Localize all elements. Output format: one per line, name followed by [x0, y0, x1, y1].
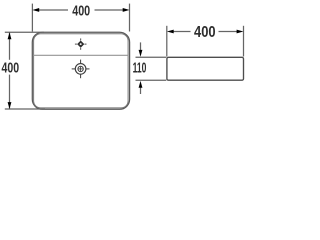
height dimension extension and dimension lines — [136, 42, 167, 94]
top width dimension left arrow — [32, 8, 39, 12]
svg-text:400: 400 — [194, 24, 216, 41]
plan view inner rim — [34, 34, 129, 108]
left depth dimension bottom arrow — [8, 102, 12, 109]
drain symbol — [72, 60, 90, 79]
plan view outer rim — [32, 32, 129, 109]
faucet hole symbol — [75, 38, 87, 49]
left depth dimension extension and dimension lines — [5, 32, 45, 109]
top width dimension right arrow — [123, 8, 130, 12]
svg-text:400: 400 — [2, 61, 20, 77]
side view width dimension extension and dimension lines — [167, 26, 244, 57]
left depth dimension top arrow — [8, 32, 12, 39]
bowl back edge line — [34, 54, 129, 56]
height dimension upper arrow — [139, 50, 143, 57]
height dimension lower arrow — [139, 81, 143, 88]
svg-text:110: 110 — [133, 61, 147, 77]
side width dimension left arrow — [167, 30, 174, 34]
side view basin body outline — [167, 57, 244, 80]
side width dimension right arrow — [237, 30, 244, 34]
svg-text:400: 400 — [72, 4, 90, 20]
top width dimension extension and dimension lines — [32, 4, 129, 32]
